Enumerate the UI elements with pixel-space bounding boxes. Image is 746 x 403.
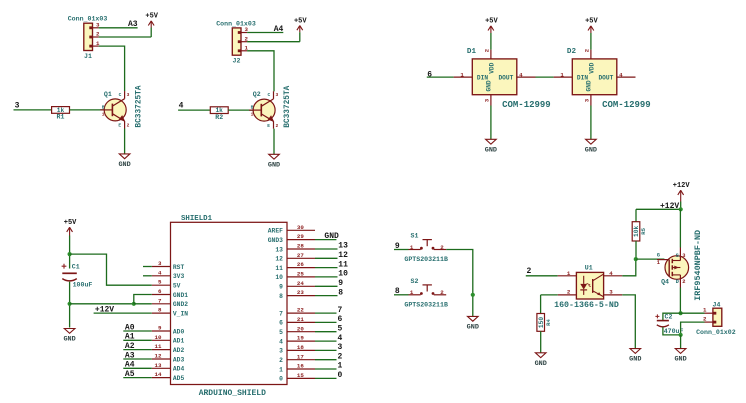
- wire GND node down: [680, 335, 682, 349]
- wire D1 pin3 to GND: [490, 106, 492, 140]
- svg-text:3: 3: [483, 98, 490, 102]
- svg-text:+5V: +5V: [64, 219, 77, 227]
- svg-text:S2: S2: [411, 278, 419, 285]
- svg-text:C2: C2: [665, 314, 673, 321]
- svg-text:GPTS203211B: GPTS203211B: [404, 256, 448, 263]
- svg-text:5V: 5V: [173, 283, 181, 290]
- svg-text:13: 13: [275, 246, 283, 253]
- svg-text:DIN: DIN: [477, 74, 488, 81]
- svg-text:VDD: VDD: [589, 62, 596, 73]
- wire digital 5: [315, 331, 337, 333]
- svg-text:3: 3: [158, 260, 162, 267]
- svg-text:28: 28: [297, 243, 304, 250]
- svg-text:GND: GND: [629, 356, 641, 364]
- svg-text:Q4: Q4: [661, 278, 669, 285]
- resistor R2 1k: [210, 107, 228, 121]
- svg-text:J4: J4: [713, 301, 721, 308]
- power +5V above C1: [64, 219, 77, 243]
- svg-text:GND: GND: [268, 161, 280, 169]
- svg-text:GND: GND: [63, 336, 75, 344]
- wire C1 bottom to GND and GND pins: [69, 282, 71, 328]
- svg-text:+5V: +5V: [145, 13, 158, 21]
- power +12V: [673, 182, 691, 209]
- ground below C1: [64, 329, 75, 334]
- transistor Q1 BC33725TA: [100, 85, 143, 129]
- svg-text:10: 10: [338, 270, 348, 279]
- svg-text:+12V: +12V: [673, 182, 691, 190]
- svg-text:GPTS203211B: GPTS203211B: [404, 301, 448, 308]
- transistor Q4 IRF9540NPBF-ND: [657, 230, 703, 301]
- ground below U1 pin3: [630, 349, 641, 354]
- svg-text:29: 29: [297, 233, 304, 240]
- svg-text:16: 16: [297, 363, 304, 370]
- wire A2: [123, 349, 152, 351]
- wire C2 bottom to GND node: [663, 327, 681, 335]
- svg-text:5: 5: [338, 324, 343, 333]
- node at C1 top: [68, 252, 72, 256]
- node GND1/GND2 tie: [132, 302, 136, 306]
- svg-text:DIN: DIN: [577, 74, 588, 81]
- svg-text:6: 6: [427, 70, 432, 79]
- wire 4 to R2: [178, 109, 210, 111]
- svg-text:23: 23: [297, 289, 304, 296]
- wire digital 8: [315, 295, 338, 297]
- svg-text:C: C: [268, 92, 271, 98]
- svg-text:1: 1: [251, 112, 254, 118]
- svg-text:AD2: AD2: [173, 347, 185, 354]
- svg-text:2: 2: [127, 123, 130, 129]
- svg-text:10: 10: [155, 334, 162, 341]
- svg-text:IRF9540NPBF-ND: IRF9540NPBF-ND: [693, 230, 703, 301]
- svg-text:1: 1: [338, 362, 343, 371]
- node +12V rail: [679, 207, 683, 211]
- svg-text:10k: 10k: [633, 226, 640, 237]
- wire A3: [123, 358, 152, 360]
- wire R1 to Q1 base: [70, 109, 105, 111]
- wire digital 9: [315, 285, 338, 287]
- svg-text:COM-12999: COM-12999: [502, 100, 551, 110]
- svg-text:RST: RST: [173, 264, 185, 271]
- node GND at C2: [679, 333, 683, 337]
- svg-text:R2: R2: [215, 114, 223, 121]
- svg-text:6: 6: [338, 315, 343, 324]
- svg-text:D2: D2: [567, 48, 577, 56]
- wire J1 pin1 to Q1 collector: [99, 46, 125, 91]
- svg-text:J1: J1: [84, 53, 92, 60]
- svg-text:COM-12999: COM-12999: [602, 100, 651, 110]
- svg-text:B: B: [251, 105, 254, 111]
- svg-text:G: G: [657, 252, 660, 258]
- svg-text:2: 2: [583, 48, 590, 52]
- wire +12V to Q4 source: [679, 209, 681, 247]
- svg-text:100uF: 100uF: [73, 282, 93, 289]
- svg-text:4: 4: [519, 71, 523, 78]
- push button S1 GPTS203211B: [404, 233, 448, 264]
- wire A5: [123, 377, 152, 379]
- ground below Q1: [119, 154, 130, 159]
- svg-text:BC33725TA: BC33725TA: [135, 85, 143, 127]
- connector J2 Conn_01x03: [216, 20, 256, 64]
- connector J1 Conn_01x03: [68, 16, 108, 60]
- svg-text:7: 7: [338, 306, 343, 315]
- svg-text:V_IN: V_IN: [173, 310, 188, 317]
- ground below S2: [468, 316, 479, 321]
- wire U1 pin3 to GND: [622, 295, 635, 349]
- svg-text:AD4: AD4: [173, 366, 185, 373]
- svg-text:AD5: AD5: [173, 375, 185, 382]
- svg-text:ARDUINO_SHIELD: ARDUINO_SHIELD: [199, 389, 266, 398]
- capacitor C1 100uF: [62, 264, 93, 289]
- connector J4 Conn_01x02: [696, 301, 736, 336]
- wire RST stub: [143, 266, 152, 268]
- svg-text:Q2: Q2: [253, 91, 261, 98]
- svg-text:11: 11: [275, 265, 283, 272]
- wire digital 4: [315, 340, 337, 342]
- wire GND3: [315, 239, 336, 241]
- ground below C2: [675, 349, 686, 354]
- wire A4: [123, 367, 152, 369]
- svg-text:20: 20: [297, 325, 304, 332]
- wire R5 to gate node: [635, 241, 637, 259]
- svg-text:10: 10: [275, 274, 283, 281]
- svg-text:3: 3: [609, 288, 613, 295]
- wire 2 to U1 pin1: [526, 275, 558, 277]
- wire D2 pin3 to GND: [590, 106, 592, 140]
- resistor R1 1k: [52, 107, 70, 121]
- svg-text:GND1: GND1: [173, 292, 188, 299]
- svg-text:Conn_01x03: Conn_01x03: [216, 20, 256, 27]
- svg-text:2: 2: [279, 357, 283, 364]
- svg-text:+5V: +5V: [585, 18, 598, 26]
- svg-text:8: 8: [338, 288, 343, 297]
- svg-text:24: 24: [297, 280, 304, 287]
- wire rail to R5: [635, 209, 637, 221]
- svg-text:30: 30: [297, 224, 304, 231]
- svg-text:4: 4: [179, 102, 184, 111]
- svg-text:2: 2: [483, 48, 490, 52]
- svg-text:GND: GND: [585, 146, 597, 154]
- svg-text:14: 14: [155, 371, 162, 378]
- transistor Q2 BC33725TA: [249, 85, 292, 129]
- svg-text:R4: R4: [545, 319, 552, 326]
- svg-text:25: 25: [297, 271, 304, 278]
- node gate: [634, 257, 638, 261]
- svg-text:3: 3: [682, 253, 685, 259]
- svg-text:C: C: [119, 92, 122, 98]
- wire A0: [123, 330, 152, 332]
- wire digital 7: [315, 312, 337, 314]
- svg-text:2: 2: [276, 123, 279, 129]
- svg-text:3: 3: [338, 343, 343, 352]
- svg-text:3: 3: [276, 92, 279, 98]
- svg-text:2: 2: [682, 279, 685, 285]
- svg-text:15: 15: [297, 372, 304, 379]
- wire 3 to R1: [14, 109, 52, 111]
- svg-text:GND3: GND3: [268, 237, 283, 244]
- ground below D2: [586, 139, 597, 144]
- node at C1 bottom: [68, 302, 72, 306]
- ground below R4: [535, 353, 546, 358]
- svg-text:E: E: [267, 123, 270, 129]
- svg-text:E: E: [118, 123, 121, 129]
- svg-text:GND: GND: [674, 356, 686, 364]
- svg-text:1: 1: [560, 71, 564, 78]
- svg-text:13: 13: [155, 362, 162, 369]
- optocoupler U1 160-1366-5-ND: [554, 265, 622, 310]
- svg-text:1: 1: [102, 111, 105, 117]
- ground below Q2: [269, 154, 280, 159]
- svg-text:+5V: +5V: [294, 17, 307, 25]
- svg-text:D1: D1: [467, 48, 477, 56]
- svg-text:2: 2: [567, 288, 571, 295]
- wire C1 top to 5V pin: [70, 254, 152, 285]
- svg-text:9: 9: [338, 279, 343, 288]
- wire +12V rail: [636, 208, 681, 210]
- svg-text:6: 6: [158, 288, 162, 295]
- svg-text:8: 8: [279, 293, 283, 300]
- svg-text:1: 1: [657, 260, 660, 266]
- svg-text:GND: GND: [535, 360, 547, 368]
- IC SHIELD1 ARDUINO_SHIELD: [152, 215, 315, 398]
- svg-text:6: 6: [279, 320, 283, 327]
- wire J1 pin2 to +5V: [99, 36, 152, 38]
- wire +12V to V_IN pin: [94, 312, 152, 314]
- LED module D2 COM-12999: [554, 48, 651, 110]
- svg-text:S1: S1: [411, 233, 419, 240]
- svg-text:13: 13: [338, 242, 348, 251]
- wire 8 to S2: [394, 294, 409, 296]
- svg-text:C1: C1: [72, 264, 80, 271]
- svg-text:AD1: AD1: [173, 338, 185, 345]
- wire R2 to Q2 base: [228, 109, 253, 111]
- capacitor C2 470uF: [655, 314, 683, 335]
- svg-text:0: 0: [338, 371, 343, 380]
- svg-text:BC33725TA: BC33725TA: [284, 85, 292, 127]
- wire D1 DOUT to D2 DIN: [536, 76, 554, 78]
- svg-text:17: 17: [297, 353, 304, 360]
- svg-text:12: 12: [338, 251, 348, 260]
- wire digital 1: [315, 368, 337, 370]
- wire 6 to D1 DIN: [427, 76, 454, 78]
- svg-text:4: 4: [619, 71, 623, 78]
- svg-text:1: 1: [410, 289, 414, 296]
- power +5V at J2: [294, 17, 307, 41]
- wire S1 to S2 junction: [446, 250, 473, 317]
- svg-text:9: 9: [279, 284, 283, 291]
- svg-text:2: 2: [338, 352, 343, 361]
- svg-text:2: 2: [440, 289, 444, 296]
- wire J2 pin1 to Q2 collector: [247, 51, 274, 92]
- svg-text:11: 11: [155, 343, 162, 350]
- wire digital 2: [315, 359, 337, 361]
- svg-text:GND2: GND2: [173, 301, 188, 308]
- wire +5V to C1 and 5V pin: [69, 243, 71, 269]
- svg-text:150: 150: [538, 317, 545, 328]
- svg-text:7: 7: [158, 297, 162, 304]
- svg-text:9: 9: [158, 325, 162, 332]
- wire J1 pin3 to A3: [99, 27, 138, 29]
- svg-text:GND: GND: [467, 323, 479, 331]
- svg-text:AD3: AD3: [173, 356, 185, 363]
- svg-text:AREF: AREF: [268, 228, 283, 235]
- wire digital 13: [315, 248, 338, 250]
- svg-text:AD0: AD0: [173, 328, 185, 335]
- wire GND2 tie: [134, 303, 152, 305]
- svg-text:8: 8: [158, 307, 162, 314]
- wire U1 pin2 down: [540, 295, 542, 314]
- wire output to C2 top: [663, 313, 681, 320]
- svg-text:26: 26: [297, 261, 304, 268]
- svg-text:GND: GND: [586, 80, 593, 91]
- wire U1 pin4 to gate node: [622, 259, 636, 276]
- svg-text:2: 2: [440, 244, 444, 251]
- wire A1: [123, 339, 152, 341]
- wire R4 to GND: [540, 331, 542, 353]
- svg-text:5: 5: [279, 329, 283, 336]
- wire gate node to Q4 gate: [636, 258, 665, 260]
- wire digital 0: [315, 377, 337, 379]
- svg-text:1: 1: [279, 366, 283, 373]
- svg-text:3: 3: [583, 98, 590, 102]
- wire digital 10: [315, 276, 338, 278]
- svg-text:1: 1: [567, 270, 571, 277]
- svg-text:19: 19: [297, 335, 304, 342]
- power +5V at D2: [585, 18, 598, 50]
- power +5V at J1: [145, 13, 158, 37]
- wire digital 11: [315, 267, 338, 269]
- wire 3V3 stub: [143, 275, 152, 277]
- svg-text:SHIELD1: SHIELD1: [181, 215, 213, 223]
- svg-text:3V3: 3V3: [173, 273, 185, 280]
- svg-text:+5V: +5V: [485, 18, 498, 26]
- svg-text:1: 1: [410, 244, 414, 251]
- svg-text:22: 22: [297, 307, 304, 314]
- wire Q2 emitter to GND: [273, 129, 275, 155]
- svg-text:3: 3: [279, 348, 283, 355]
- svg-text:VDD: VDD: [489, 62, 496, 73]
- wire J2 pin2 to +5V: [247, 41, 300, 43]
- svg-text:160-1366-5-ND: 160-1366-5-ND: [554, 301, 619, 310]
- svg-text:4: 4: [338, 334, 343, 343]
- wire GND1 tie: [134, 295, 152, 304]
- svg-text:DOUT: DOUT: [598, 74, 613, 81]
- svg-text:7: 7: [279, 310, 283, 317]
- svg-text:Conn_01x03: Conn_01x03: [68, 16, 108, 23]
- wire U1 pin2 to R4: [541, 294, 558, 296]
- svg-text:GND: GND: [485, 146, 497, 154]
- svg-text:U1: U1: [585, 265, 593, 272]
- svg-text:11: 11: [338, 260, 348, 269]
- wire J2 pin3 to A4: [247, 32, 283, 34]
- wire 9 to S1: [394, 249, 409, 251]
- svg-text:2: 2: [527, 267, 532, 276]
- node S2 junction: [471, 293, 475, 297]
- resistor R4 150: [537, 314, 552, 332]
- wire Q1 emitter to GND: [124, 129, 126, 154]
- svg-text:B: B: [102, 104, 105, 110]
- ground below D1: [486, 139, 497, 144]
- resistor R5 10k: [632, 222, 647, 241]
- svg-text:18: 18: [297, 344, 304, 351]
- svg-text:J2: J2: [233, 58, 241, 65]
- svg-text:12: 12: [155, 353, 162, 360]
- wire digital 3: [315, 349, 337, 351]
- svg-text:GND: GND: [486, 80, 493, 91]
- LED module D1 COM-12999: [454, 48, 551, 110]
- svg-text:R1: R1: [57, 114, 65, 121]
- svg-text:R5: R5: [640, 227, 647, 234]
- wire J4 pin2 to GND node: [681, 322, 705, 335]
- svg-text:12: 12: [275, 256, 283, 263]
- svg-text:27: 27: [297, 252, 304, 259]
- svg-text:21: 21: [297, 316, 304, 323]
- svg-text:Conn_01x02: Conn_01x02: [696, 329, 736, 336]
- svg-text:2: 2: [703, 316, 707, 323]
- svg-text:4: 4: [609, 270, 613, 277]
- svg-text:DOUT: DOUT: [498, 74, 513, 81]
- wire C1 bottom to GND2 pin: [70, 303, 134, 305]
- svg-text:4: 4: [279, 338, 283, 345]
- svg-text:GND: GND: [118, 161, 130, 169]
- node output: [679, 311, 683, 315]
- svg-text:1: 1: [703, 307, 707, 314]
- svg-text:1: 1: [460, 71, 464, 78]
- svg-text:3: 3: [127, 92, 130, 98]
- wire Q4 drain to output node: [679, 288, 681, 314]
- power +5V at D1: [485, 18, 498, 50]
- push button S2 GPTS203211B: [404, 278, 448, 309]
- svg-text:Q1: Q1: [104, 91, 112, 98]
- svg-text:4: 4: [158, 269, 162, 276]
- wire output to J4 pin1: [681, 312, 705, 314]
- svg-text:0: 0: [279, 376, 283, 383]
- wire digital 6: [315, 321, 337, 323]
- wire digital 12: [315, 257, 338, 259]
- svg-text:5: 5: [158, 279, 162, 286]
